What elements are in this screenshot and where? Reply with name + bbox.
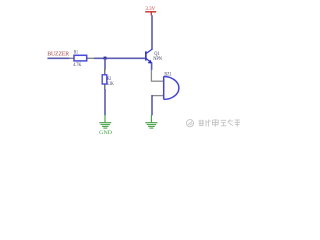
transistor Q1 — [145, 49, 152, 64]
label R1 — [74, 50, 78, 56]
label 3.3K — [107, 81, 114, 87]
wire buzzer bottom lead to ground — [152, 96, 153, 116]
svg-text:BZ1: BZ1 — [164, 72, 171, 78]
resistor R1 — [70, 55, 95, 61]
label Q1 — [154, 51, 159, 57]
power 3.3V bar symbol — [145, 12, 156, 16]
wire R1 to transistor base — [94, 57, 145, 59]
wire BUZZER port underline to R1 left lead — [47, 57, 69, 59]
label GND — [99, 130, 112, 136]
label NPN — [153, 56, 162, 62]
ground (right, under buzzer) — [145, 115, 157, 128]
label BZ1 — [164, 72, 171, 78]
power 3.3V label — [145, 6, 155, 12]
net label BUZZER — [47, 52, 69, 58]
svg-text:R1: R1 — [74, 50, 78, 56]
wire emitter down to buzzer top lead — [150, 63, 152, 81]
label R2 — [107, 76, 111, 82]
svg-text:4.7K: 4.7K — [73, 62, 81, 68]
wire R2 to ground — [104, 89, 106, 115]
svg-text:BUZZER: BUZZER — [47, 52, 69, 58]
junction node at R2 branch — [104, 57, 107, 60]
wire junction down to R2 — [104, 58, 106, 69]
watermark text (simulated CJK strokes) — [199, 119, 241, 126]
svg-text:3.3K: 3.3K — [107, 81, 114, 87]
wire power to collector — [151, 15, 153, 49]
svg-text:GND: GND — [99, 130, 112, 136]
resistor R2 — [102, 69, 107, 90]
svg-text:NPN: NPN — [153, 56, 162, 62]
label 4.7K — [73, 62, 81, 68]
buzzer BZ1 — [151, 76, 179, 99]
watermark logo — [186, 120, 193, 127]
ground GND (left) — [99, 115, 111, 128]
